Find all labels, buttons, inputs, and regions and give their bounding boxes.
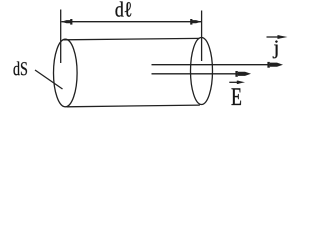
E hat arrowhead bbox=[238, 81, 245, 84]
label E bbox=[232, 88, 242, 105]
j hat arrowhead bbox=[279, 35, 288, 38]
right extension line bbox=[201, 11, 203, 62]
vector j shaft bbox=[152, 64, 272, 66]
cylinder top line bbox=[64, 38, 200, 39]
dimension arrowhead right bbox=[192, 20, 201, 23]
cylinder left face ellipse bbox=[54, 39, 78, 107]
E hat arrow shaft bbox=[229, 81, 238, 83]
vector E shaft bbox=[152, 73, 240, 75]
dS pointer line bbox=[35, 70, 63, 89]
label dl bbox=[115, 2, 131, 17]
cylinder right face ellipse bbox=[191, 38, 213, 105]
label dS bbox=[14, 61, 28, 75]
dimension arrowhead left bbox=[61, 20, 70, 23]
label j bbox=[273, 40, 278, 58]
cylinder bottom line bbox=[67, 105, 200, 107]
dimension line dl bbox=[61, 21, 201, 23]
vector j arrowhead bbox=[270, 63, 283, 67]
vector E arrowhead bbox=[238, 72, 251, 76]
j hat arrow shaft bbox=[267, 36, 280, 38]
left extension line bbox=[60, 10, 62, 64]
